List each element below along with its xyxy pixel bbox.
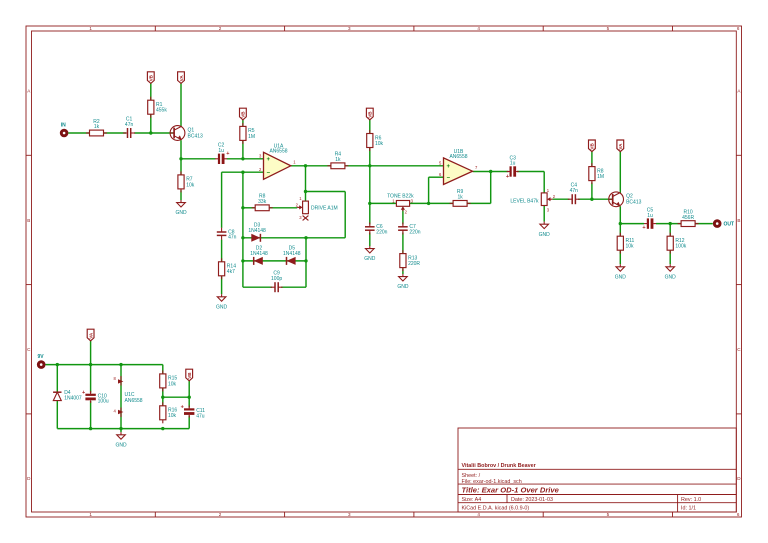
wire TONE row left (370, 202, 397, 204)
resistor R11 (617, 233, 634, 254)
svg-text:1N4148: 1N4148 (250, 251, 268, 257)
svg-text:1k: 1k (457, 195, 463, 201)
wire C11 to rail (188, 416, 190, 429)
ground (539, 222, 551, 238)
wire R5 to pin3 node (242, 141, 244, 159)
junction (241, 206, 244, 209)
svg-text:GND: GND (397, 284, 409, 290)
resistor R6 (367, 130, 384, 151)
connector pad OUT (713, 219, 734, 228)
resistor R7 (178, 171, 195, 192)
junction (241, 259, 244, 262)
svg-text:10k: 10k (168, 413, 177, 419)
svg-text:1u: 1u (218, 148, 224, 154)
wire R11 to ground (619, 251, 621, 265)
svg-text:+: + (267, 157, 271, 163)
resistor R5 (240, 123, 255, 144)
svg-text:6: 6 (737, 512, 740, 517)
svg-text:1N4148: 1N4148 (248, 228, 266, 234)
op-amp U1B (439, 149, 478, 185)
wire Q1 emitter down (180, 140, 182, 159)
wire R1 to input node (150, 113, 152, 133)
junction (241, 236, 244, 239)
transistor Q1 (170, 126, 203, 141)
junction (304, 236, 307, 239)
svg-text:VB: VB (187, 372, 192, 379)
wire to D4 (56, 365, 58, 392)
wire to R11 (619, 224, 621, 237)
power flag VA (617, 140, 624, 152)
svg-text:−: − (267, 170, 271, 176)
svg-text:2: 2 (219, 512, 222, 517)
wire LEVEL to ground (543, 206, 545, 222)
wire D3 row (243, 237, 345, 239)
wire rail to ground (120, 429, 122, 433)
svg-text:BC413: BC413 (626, 200, 642, 206)
wire main row to U1B pin5 (345, 165, 444, 167)
wire emitter node to C5 (620, 223, 644, 225)
power flag VB (186, 369, 193, 381)
junction (161, 427, 164, 430)
diode D2 (250, 246, 268, 265)
svg-text:6: 6 (737, 26, 740, 31)
svg-text:GND: GND (115, 442, 127, 448)
svg-text:100p: 100p (271, 276, 282, 282)
wire ground rail (57, 428, 189, 430)
resistor R15 (160, 370, 178, 391)
svg-text:VA: VA (88, 332, 93, 339)
svg-text:DRIVE A1M: DRIVE A1M (311, 206, 338, 212)
svg-text:LEVEL B47k: LEVEL B47k (510, 199, 539, 205)
svg-text:VA: VA (179, 75, 184, 82)
junction (619, 222, 622, 225)
wire U1B pin6 (429, 176, 444, 178)
capacitor C2 (polarized) (215, 143, 229, 164)
wire D2 D5 row (243, 260, 306, 262)
wire R15 to R16 (162, 388, 164, 406)
svg-text:1M: 1M (597, 174, 604, 180)
power flag VA (87, 329, 94, 341)
wire R14 to ground (221, 276, 223, 294)
power flag VB (240, 108, 247, 120)
wire U1A output (291, 165, 331, 167)
svg-text:Date: 2023-01-03: Date: 2023-01-03 (511, 497, 553, 503)
svg-text:+: + (226, 151, 229, 157)
svg-text:47n: 47n (125, 122, 134, 128)
resistor R8 (252, 194, 273, 211)
svg-text:Sheet: /: Sheet: / (462, 473, 481, 479)
junction (368, 164, 371, 167)
junction (669, 222, 672, 225)
wire feedback loop right (344, 192, 346, 238)
wire C9 left (243, 286, 272, 288)
junction (149, 131, 152, 134)
svg-text:File: exar-od-1.kicad_sch: File: exar-od-1.kicad_sch (462, 479, 522, 485)
wire R8 to DRIVE wiper (270, 207, 298, 209)
svg-text:B: B (27, 218, 30, 223)
wire LEVEL wiper to C4 (553, 198, 570, 200)
wire Q2 emitter down (619, 206, 621, 223)
svg-text:VB: VB (149, 74, 154, 81)
svg-text:BC413: BC413 (188, 133, 204, 139)
junction (161, 396, 164, 399)
wire VA flag to Q2 collector (619, 152, 621, 194)
wire divider to VB node (163, 396, 189, 398)
capacitor C6 (365, 223, 388, 236)
svg-text:1k: 1k (94, 124, 100, 130)
svg-text:B: B (737, 218, 740, 223)
capacitor C5 (polarized) (642, 207, 656, 230)
ground (665, 264, 677, 280)
svg-text:220n: 220n (376, 230, 387, 236)
diode D5 (283, 246, 301, 265)
svg-text:455k: 455k (156, 108, 167, 114)
svg-text:IN: IN (61, 123, 66, 129)
potentiometer RV3 LEVEL (541, 193, 552, 206)
power flag VB (589, 140, 596, 152)
wire U1B output (473, 171, 509, 173)
svg-text:2: 2 (219, 26, 222, 31)
svg-text:−: − (447, 175, 451, 181)
capacitor C10 (polarized) (82, 390, 109, 405)
op-amp U1A (259, 143, 296, 179)
svg-text:AN6558: AN6558 (125, 398, 143, 404)
svg-text:Vitalii Bobrov / Drunk Beaver: Vitalii Bobrov / Drunk Beaver (462, 463, 537, 469)
svg-text:456R: 456R (682, 215, 694, 221)
resistor R2 (86, 119, 107, 136)
power flag VA (178, 72, 185, 84)
ground (397, 274, 409, 290)
junction (119, 363, 122, 366)
svg-text:Rev: 1.0: Rev: 1.0 (681, 497, 701, 503)
svg-text:5: 5 (607, 26, 610, 31)
junction (304, 164, 307, 167)
wire D4 to rail (56, 401, 58, 429)
wire C2 to U1A pin3 (227, 158, 264, 160)
wire R13 to ground (402, 268, 404, 274)
wire 9V rail (46, 364, 163, 366)
wire C8 to R14 (221, 240, 223, 262)
svg-text:AN6558: AN6558 (449, 154, 467, 160)
junction (590, 198, 593, 201)
wire VB flag to R5 (242, 120, 244, 126)
wire R9 right (466, 202, 490, 204)
resistor R10 (678, 209, 699, 226)
svg-text:1u: 1u (647, 213, 653, 219)
svg-text:1: 1 (89, 26, 92, 31)
wire U1C power (120, 365, 122, 429)
svg-text:Title: Exar OD-1 Over Drive: Title: Exar OD-1 Over Drive (462, 486, 560, 495)
no-connect cross at DRIVE pin 3 (303, 216, 309, 221)
svg-text:GND: GND (175, 210, 187, 216)
junction (304, 259, 307, 262)
wire TONE to R9 (410, 202, 454, 204)
wire R9 feedback up (490, 172, 492, 204)
ground (615, 264, 627, 280)
svg-text:Id: 1/1: Id: 1/1 (681, 506, 696, 512)
potentiometer RV2 TONE (387, 194, 414, 215)
power flag VB (366, 108, 373, 120)
svg-text:OUT: OUT (724, 222, 735, 228)
svg-text:Size: A4: Size: A4 (462, 497, 482, 503)
wire VB flag to R8b (591, 152, 593, 167)
junction (119, 427, 122, 430)
svg-text:3: 3 (348, 26, 351, 31)
wire to R8 (243, 207, 255, 209)
svg-text:9V: 9V (38, 354, 45, 360)
capacitor C8 (217, 228, 237, 241)
svg-text:33k: 33k (258, 199, 267, 205)
wire pin2 to C8 (221, 172, 223, 228)
svg-text:220n: 220n (409, 230, 420, 236)
transistor Q2 (609, 192, 642, 207)
ground (364, 246, 376, 262)
svg-text:1M: 1M (248, 134, 255, 140)
wire VA flag to Q1 collector (180, 83, 182, 126)
svg-text:1: 1 (89, 512, 92, 517)
svg-text:47n: 47n (570, 188, 579, 194)
resistor R16 (160, 402, 178, 423)
junction (89, 427, 92, 430)
wire VB flag to C11 (188, 381, 190, 408)
wire VB flag to R6 (369, 120, 371, 134)
wire C3 to LEVEL (517, 171, 544, 173)
junction (56, 363, 59, 366)
svg-text:10k: 10k (626, 244, 635, 250)
wire R8b to base node (591, 182, 593, 199)
connector pad IN (60, 123, 69, 138)
svg-text:+: + (506, 174, 509, 180)
resistor R4 (327, 152, 348, 169)
svg-text:4k7: 4k7 (227, 269, 235, 275)
resistor R8 (Q2 bias 1M) (589, 163, 604, 184)
wire (104, 132, 127, 134)
svg-text:100k: 100k (675, 244, 686, 250)
wire emitter node to C2 (181, 158, 216, 160)
svg-text:+: + (82, 390, 85, 396)
wire C10 to rail (90, 401, 92, 429)
svg-text:4: 4 (477, 512, 480, 517)
resistor R1 (148, 97, 168, 118)
potentiometer RV1 DRIVE (297, 201, 308, 214)
junction (368, 202, 371, 205)
svg-text:100u: 100u (98, 399, 109, 405)
svg-text:VB: VB (368, 111, 373, 118)
junction (489, 170, 492, 173)
svg-text:10k: 10k (375, 141, 384, 147)
junction (241, 157, 244, 160)
resistor R12 (667, 233, 687, 254)
ground (115, 432, 127, 448)
wire loop inner vertical (305, 238, 307, 287)
junction (89, 363, 92, 366)
junction (241, 171, 244, 174)
wire R6 to main row (369, 146, 371, 165)
title block (458, 428, 736, 512)
connector pad 9V (37, 354, 46, 369)
diode D4 (53, 390, 82, 402)
wire to R7 (180, 159, 182, 175)
wire C7 to R13 (402, 233, 404, 254)
wire R7 to ground (180, 190, 182, 200)
capacitor C9 (271, 271, 283, 293)
svg-text:GND: GND (364, 256, 376, 262)
svg-text:GND: GND (665, 274, 677, 280)
capacitor C4 (568, 183, 580, 205)
resistor R13 (400, 250, 421, 271)
wire U1A pin2 row (222, 171, 264, 173)
wire pin6 vertical (428, 177, 430, 203)
wire TONE wiper to C7 (402, 210, 404, 225)
junction (304, 190, 307, 193)
svg-text:3: 3 (348, 512, 351, 517)
wire VA flag to C10 (90, 341, 92, 393)
svg-text:VB: VB (241, 111, 246, 118)
wire to R12 (669, 224, 671, 237)
svg-text:GND: GND (539, 232, 551, 238)
svg-text:VB: VB (590, 143, 595, 150)
wire to R15 (162, 365, 164, 374)
wire output to DRIVE pot (305, 166, 307, 201)
wire VB flag to R1 (150, 83, 152, 100)
svg-text:5: 5 (607, 512, 610, 517)
svg-text:GND: GND (216, 304, 228, 310)
svg-text:10k: 10k (168, 381, 177, 387)
capacitor C1 (123, 116, 135, 138)
ground (216, 294, 228, 310)
wire (68, 132, 89, 134)
wire feedback vertical (242, 172, 244, 287)
svg-text:1u: 1u (510, 161, 516, 167)
svg-text:1k: 1k (335, 157, 341, 163)
svg-text:1N4148: 1N4148 (283, 251, 301, 257)
svg-text:47u: 47u (196, 413, 205, 419)
svg-text:+: + (642, 225, 645, 231)
ground (175, 200, 187, 216)
wire down to C6 (369, 166, 371, 225)
wire C4 to Q2 base (578, 198, 613, 200)
wire C9 right (281, 286, 306, 288)
capacitor C7 (398, 223, 421, 236)
power flag VB (147, 72, 154, 84)
svg-text:KiCad E.D.A. kicad (6.0.9-0): KiCad E.D.A. kicad (6.0.9-0) (462, 506, 530, 512)
capacitor C3 (polarized) (506, 155, 519, 180)
svg-text:+: + (181, 405, 184, 411)
wire C6 to ground (369, 233, 371, 247)
wire (134, 132, 174, 134)
svg-text:47n: 47n (228, 235, 237, 241)
svg-text:+: + (447, 164, 451, 170)
resistor R9 (450, 189, 471, 206)
resistor R14 (219, 258, 237, 279)
svg-text:VA: VA (618, 143, 623, 150)
svg-text:GND: GND (615, 274, 627, 280)
wire C5 to R10 (656, 223, 681, 225)
junction (179, 157, 182, 160)
diode D3 (248, 223, 266, 242)
svg-text:10k: 10k (186, 182, 195, 188)
junction (188, 396, 191, 399)
svg-text:4: 4 (477, 26, 480, 31)
wire down to LEVEL pot (543, 172, 545, 193)
junction (427, 202, 430, 205)
svg-text:AN6558: AN6558 (269, 149, 287, 155)
wire R12 to ground (669, 251, 671, 265)
op-amp U1C power unit (114, 376, 143, 417)
wire feedback loop top (306, 191, 346, 193)
svg-text:220R: 220R (408, 261, 420, 267)
wire R10 to OUT pad (695, 223, 713, 225)
capacitor C11 (polarized) (181, 405, 206, 420)
svg-text:1N4007: 1N4007 (64, 396, 82, 402)
